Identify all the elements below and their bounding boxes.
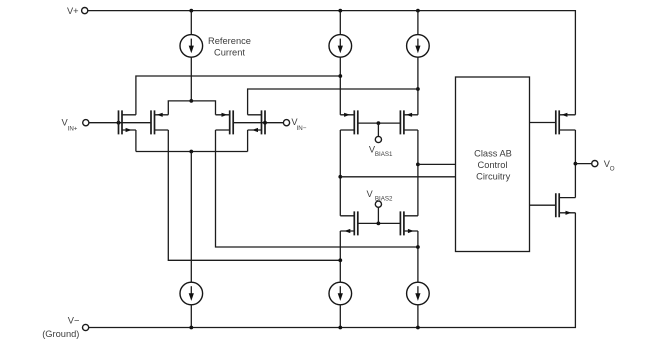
svg-text:BIAS1: BIAS1 <box>375 151 393 158</box>
svg-text:BIAS2: BIAS2 <box>375 196 393 203</box>
wire V+ rail to current source I3 <box>417 11 419 35</box>
VBIAS1 terminal <box>375 136 381 142</box>
wire output node to VO terminal <box>575 163 591 165</box>
VO terminal <box>592 161 598 167</box>
node PMOS tail <box>189 99 193 103</box>
wire Q4 source down to NMOS tail <box>247 130 249 152</box>
node right cascode output <box>416 163 420 167</box>
wire V+ rail to reference current source <box>190 11 192 35</box>
wire V+ rail to current source I2 <box>339 11 341 35</box>
wire Q1 drain up and across <box>136 76 340 115</box>
svg-text:Reference: Reference <box>208 36 251 46</box>
wire box to Q9 gate <box>530 122 556 124</box>
wire I6 to bottom rail <box>417 305 419 328</box>
transistor Q4 (input NMOS, right outer) <box>248 110 265 134</box>
wire VIN- to Q3/Q4 gates <box>233 122 283 124</box>
current source I3 <box>407 35 430 58</box>
node bottom rail / I4 <box>189 326 193 330</box>
wire reference current to PMOS tail node <box>190 57 192 101</box>
VIN- terminal <box>283 120 289 126</box>
Class AB Control Circuitry box U1 <box>456 77 530 252</box>
wire VBIAS2 stem <box>377 207 379 223</box>
node bottom rail / I6 <box>416 326 420 330</box>
wire PMOS input pair tail <box>168 101 215 115</box>
wire NMOS input pair tail <box>136 151 248 153</box>
svg-text:IN−: IN− <box>297 125 307 132</box>
svg-text:Current: Current <box>214 48 245 58</box>
wire top rail V+ <box>88 11 576 115</box>
node top rail / right current source <box>416 9 420 13</box>
node Q3 drain joins Q8 source <box>416 245 420 249</box>
node VIN+ at Q1 gate <box>117 121 121 125</box>
node Q2 drain joins Q7 source <box>338 258 342 262</box>
node VIN- at Q4 gate <box>263 121 267 125</box>
node VBIAS1 <box>377 121 381 125</box>
svg-text:O: O <box>610 165 615 172</box>
node VBIAS2 <box>377 222 381 226</box>
wire Q1 source down to NMOS tail <box>135 130 137 152</box>
svg-text:IN+: IN+ <box>68 126 78 133</box>
V- terminal <box>83 324 89 330</box>
VBIAS2 terminal <box>375 201 381 207</box>
current source I6 <box>407 282 430 305</box>
current source I1 (reference) <box>180 35 203 58</box>
wire Q9 drain to output node <box>574 130 576 198</box>
wire Q2 drain down and across to Q7 source node <box>168 130 340 260</box>
wire I5 to bottom rail <box>339 305 341 328</box>
transistor Q1 (input NMOS, left outer) <box>119 110 136 134</box>
wire Q7 source down to current source I5 <box>339 231 341 282</box>
wire Q4 drain up and across <box>248 89 418 115</box>
wire VIN+ to Q1/Q2 gates <box>89 122 151 124</box>
wire bottom rail V- <box>89 213 576 328</box>
svg-text:Circuitry: Circuitry <box>476 171 510 181</box>
wire Q3 drain down and across to Q8 source node <box>216 130 418 247</box>
svg-text:(Ground): (Ground) <box>42 329 79 339</box>
transistor Q7 (NMOS cascode left) <box>340 211 358 235</box>
node top rail / reference current <box>189 9 193 13</box>
svg-text:V−: V− <box>68 315 80 325</box>
node bottom rail / I5 <box>338 326 342 330</box>
wire box to Q10 gate <box>530 204 556 206</box>
wire right cascode output to Class AB box <box>418 163 456 165</box>
current source I5 <box>329 282 352 305</box>
svg-text:Class AB: Class AB <box>474 148 512 158</box>
node NMOS tail <box>189 150 193 154</box>
transistor Q2 (input PMOS, left inner) <box>151 110 168 134</box>
wire I3 to Q6 source <box>417 57 419 115</box>
svg-text:Control: Control <box>478 160 508 170</box>
svg-text:V: V <box>367 189 374 199</box>
transistor Q3 (input PMOS, right inner) <box>216 110 234 134</box>
svg-text:V+: V+ <box>67 6 79 16</box>
V+ terminal <box>82 8 88 14</box>
wire Q5/Q6 gate line <box>358 122 401 124</box>
wire Q5 drain to Q7 drain (left cascode column) <box>339 130 341 216</box>
wire Q7/Q8 gate line <box>358 222 401 224</box>
VIN+ terminal <box>83 120 89 126</box>
node output <box>574 162 578 166</box>
wire left cascode output to Class AB box <box>340 176 455 178</box>
wire I2 to Q5 source <box>339 57 341 115</box>
transistor Q5 (second stage PMOS left) <box>340 110 358 134</box>
transistor Q8 (NMOS cascode right) <box>400 211 418 235</box>
transistor Q9 (output PMOS) <box>556 110 576 134</box>
node left cascode output <box>338 175 342 179</box>
wire Q6 drain to Q8 drain (right cascode column) <box>417 130 419 216</box>
wire NMOS tail down to current source I4 <box>190 152 192 283</box>
node top rail / left current source <box>338 9 342 13</box>
wire I4 to bottom rail <box>190 305 192 328</box>
node Q1 drain / Q5 source <box>338 74 342 78</box>
wire Q8 source down to current source I6 <box>417 231 419 282</box>
node Q4 drain / Q6 source <box>416 87 420 91</box>
wire VBIAS1 stem <box>377 123 379 136</box>
transistor Q6 (second stage PMOS right) <box>400 110 418 134</box>
current source I2 <box>329 35 352 58</box>
current source I4 (tail sink) <box>180 282 203 305</box>
transistor Q10 (output NMOS) <box>556 193 576 217</box>
